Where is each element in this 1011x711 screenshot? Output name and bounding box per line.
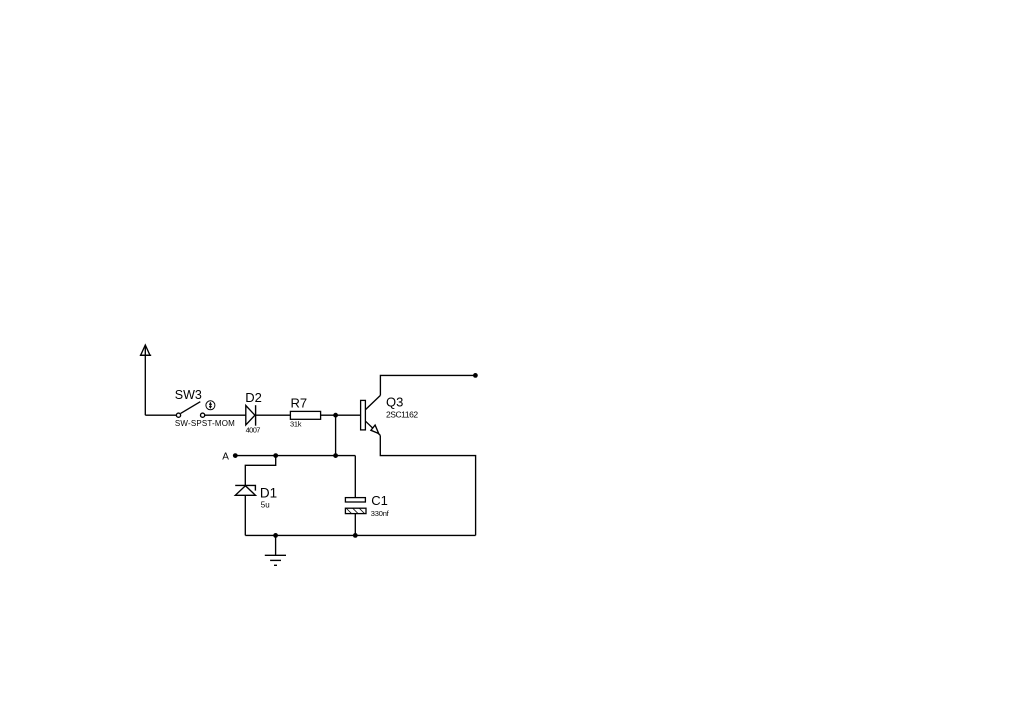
junction node R7 output bbox=[333, 413, 338, 418]
wire bottom rail bbox=[245, 534, 475, 536]
transistor Q3 bbox=[361, 395, 381, 435]
momentary actuator symbol bbox=[206, 401, 215, 410]
zener diode D1 bbox=[235, 485, 255, 495]
wire rail to C1 top bbox=[354, 456, 356, 498]
wire junction down to node A rail bbox=[335, 415, 337, 455]
wire VCC to switch bbox=[145, 414, 176, 416]
wire C1 to bottom rail bbox=[354, 514, 356, 536]
wire jog to D1 bbox=[245, 456, 275, 486]
junction bottom rail at ground bbox=[273, 533, 278, 538]
wire ground stem bbox=[275, 535, 277, 555]
svg-text:330nf: 330nf bbox=[371, 509, 390, 518]
wire collector up and right bbox=[380, 375, 475, 395]
capacitor C1 bbox=[345, 498, 366, 514]
diode D2 bbox=[246, 405, 256, 426]
wire R7 to Q3 base bbox=[321, 414, 361, 416]
wire emitter down right down bbox=[380, 435, 475, 535]
wire VCC vertical bbox=[144, 346, 146, 415]
svg-text:4007: 4007 bbox=[246, 426, 261, 435]
svg-text:5u: 5u bbox=[261, 500, 270, 509]
resistor R7 bbox=[290, 411, 320, 419]
svg-text:SW3: SW3 bbox=[175, 388, 202, 402]
node A bbox=[233, 453, 238, 458]
svg-text:2SC1162: 2SC1162 bbox=[386, 409, 418, 419]
junction bottom rail at C1 bbox=[353, 533, 358, 538]
wire D2 to R7 bbox=[256, 414, 291, 416]
wire switch to D2 bbox=[205, 414, 246, 416]
junction on rail below R7 bbox=[333, 453, 338, 458]
svg-text:D1: D1 bbox=[260, 485, 277, 500]
power symbol VCC arrow bbox=[140, 345, 151, 355]
svg-text:SW-SPST-MOM: SW-SPST-MOM bbox=[175, 419, 235, 428]
collector end node bbox=[473, 373, 478, 378]
svg-text:A: A bbox=[222, 452, 229, 463]
svg-text:31k: 31k bbox=[290, 420, 302, 429]
svg-text:D2: D2 bbox=[245, 390, 262, 405]
svg-text:C1: C1 bbox=[371, 493, 388, 508]
svg-text:Q3: Q3 bbox=[386, 394, 403, 409]
svg-text:R7: R7 bbox=[291, 396, 308, 411]
ground bbox=[265, 555, 286, 565]
wire node A rail bbox=[235, 455, 355, 457]
junction on rail at D1 branch bbox=[273, 453, 278, 458]
switch SW3 bbox=[176, 402, 204, 418]
wire D1 to bottom rail bbox=[244, 495, 246, 535]
